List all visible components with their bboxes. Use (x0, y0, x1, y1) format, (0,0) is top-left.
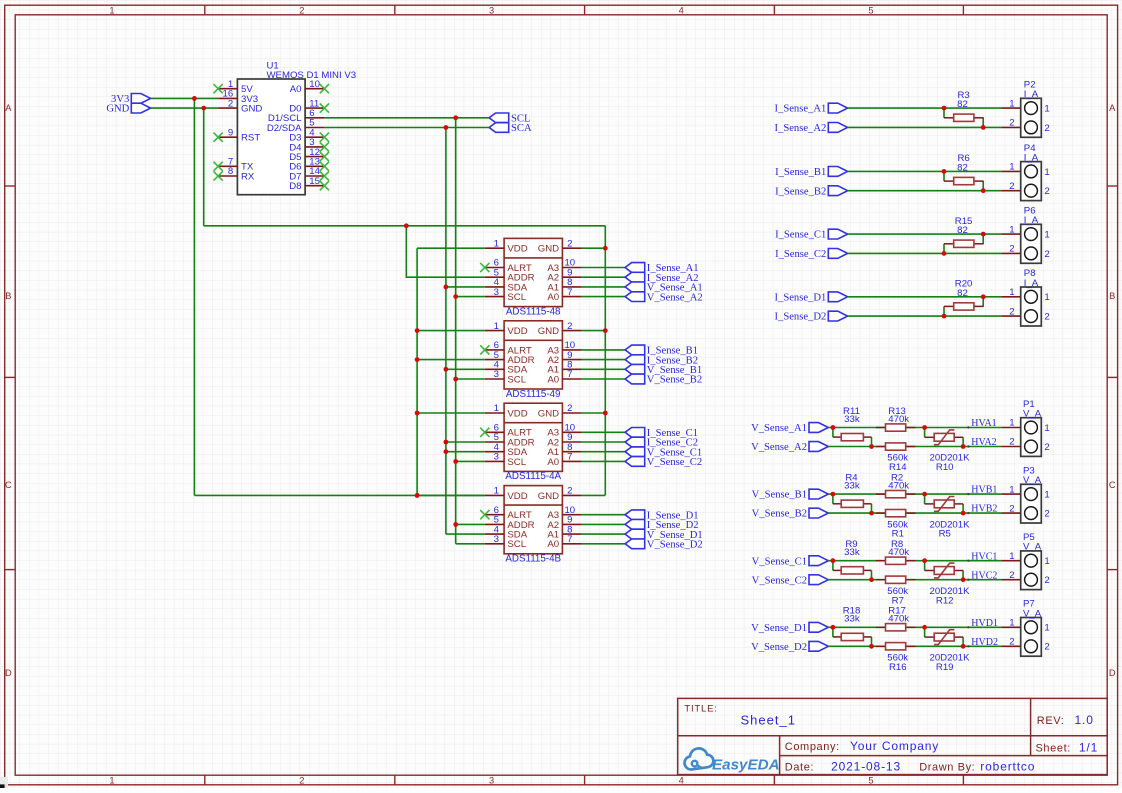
svg-text:GND: GND (538, 244, 559, 255)
svg-text:I_A: I_A (1024, 215, 1039, 226)
svg-text:82: 82 (957, 225, 968, 236)
svg-text:33k: 33k (844, 414, 860, 425)
svg-text:VDD: VDD (507, 244, 527, 255)
wire ADDR-48 branch to GND (406, 226, 485, 277)
svg-text:GND: GND (106, 104, 129, 115)
wire GND from ADS1115-4B (582, 494, 606, 496)
svg-text:RST: RST (241, 133, 260, 144)
svg-text:4: 4 (679, 775, 684, 785)
svg-text:V_Sense_B2: V_Sense_B2 (647, 375, 702, 386)
svg-text:2: 2 (1044, 642, 1049, 653)
svg-text:Sheet_1: Sheet_1 (741, 712, 796, 727)
net label HVB2 (967, 504, 997, 515)
net flag V_Sense_D2 (751, 641, 828, 653)
svg-text:3: 3 (494, 452, 499, 463)
svg-text:1: 1 (109, 5, 114, 15)
svg-text:GND: GND (538, 408, 559, 419)
svg-text:V_A: V_A (1023, 542, 1042, 553)
resistor R11 33k (833, 406, 872, 441)
junction GND ADS1115-49 (603, 328, 608, 333)
svg-text:Date:: Date: (785, 762, 814, 774)
junction R11 top (831, 425, 836, 430)
connector P1 V_A (1001, 399, 1049, 457)
wire SDA from U1 D2/SDA to flag (324, 127, 489, 129)
wire SDA stub ADS1115-48 (444, 285, 485, 290)
wire SCL stub ADS1115-48 (453, 294, 484, 299)
svg-text:V_Sense_B1: V_Sense_B1 (752, 490, 807, 501)
net flag SCL (489, 113, 530, 125)
varistor R12 20D201K (925, 561, 970, 607)
svg-text:2: 2 (1009, 570, 1014, 581)
svg-text:HVB2: HVB2 (971, 504, 997, 515)
net flag I_Sense_D1 (775, 292, 848, 304)
varistor R10 20D201K (925, 428, 970, 474)
wire GND from ADS1115-4A (582, 412, 606, 414)
wire resistor R11 drop legs (833, 428, 872, 447)
svg-text:V_Sense_D1: V_Sense_D1 (751, 623, 807, 634)
junction R5 top (922, 492, 927, 497)
junction R6 bottom (981, 188, 986, 193)
svg-text:I_Sense_D2: I_Sense_D2 (775, 312, 827, 323)
wire V_Sense_A1 row (828, 427, 1001, 429)
net flag V_Sense_C2 (752, 575, 829, 587)
wire ADS1115-4A to net flag V_Sense_C1 (582, 451, 625, 453)
svg-text:5: 5 (868, 5, 873, 15)
wire ADS1115-4A to net flag I_Sense_C1 (582, 431, 625, 433)
wire VDD to ADS1115-4B (417, 494, 485, 496)
svg-text:1: 1 (1009, 551, 1014, 562)
net flag V_Sense_D2 (625, 539, 703, 551)
svg-text:B: B (5, 291, 11, 301)
resistor R2 470k (876, 472, 916, 497)
svg-text:HVC1: HVC1 (971, 551, 997, 562)
svg-text:C: C (1109, 480, 1116, 490)
wire V_Sense_D2 row (828, 645, 1001, 647)
svg-text:ADS1115-4B: ADS1115-4B (505, 554, 561, 565)
junction R4 top (831, 492, 836, 497)
svg-text:15: 15 (309, 176, 320, 187)
svg-text:A0: A0 (547, 457, 559, 468)
svg-text:VDD: VDD (507, 326, 527, 337)
net flag I_Sense_C1 (625, 428, 698, 440)
svg-text:1: 1 (1009, 98, 1014, 109)
net flag I_Sense_D2 (625, 520, 698, 532)
svg-text:roberttco: roberttco (980, 760, 1035, 774)
junction R12 top (922, 558, 927, 563)
junction R4 bottom (869, 511, 874, 516)
svg-text:VDD: VDD (507, 408, 527, 419)
wire GND right vertical rail (604, 226, 606, 496)
wire VDD to ADS1115-49 (417, 330, 485, 332)
net flag I_Sense_A2 (775, 123, 848, 135)
net flag V_Sense_A2 (751, 442, 828, 454)
svg-text:V_Sense_C2: V_Sense_C2 (752, 575, 807, 586)
wire ADDR-4B to SCL bus (453, 522, 484, 527)
svg-text:2: 2 (299, 775, 304, 785)
svg-text:1: 1 (1044, 230, 1049, 241)
svg-text:7: 7 (567, 369, 572, 380)
junction R3 bottom (981, 125, 986, 130)
junction R9 bottom (869, 577, 874, 582)
svg-text:1: 1 (1009, 224, 1014, 235)
resistor R4 33k (833, 472, 872, 507)
junction R6 top (942, 169, 947, 174)
svg-text:C: C (5, 480, 12, 490)
wire ADDR-49 to VDD rail (415, 357, 485, 362)
svg-text:82: 82 (957, 99, 968, 110)
junction VDD ADS1115-4A (415, 411, 420, 416)
wire SDA stub ADS1115-49 (444, 367, 485, 372)
resistor R18 33k (833, 606, 872, 641)
net flag I_Sense_B2 (775, 186, 848, 198)
svg-text:V_Sense_D2: V_Sense_D2 (751, 642, 807, 653)
resistor R16 560k (876, 643, 916, 673)
varistor R19 20D201K (925, 627, 970, 673)
net flag I_Sense_B1 (775, 167, 848, 179)
svg-text:470k: 470k (888, 414, 909, 425)
svg-text:EasyEDA: EasyEDA (712, 757, 780, 774)
wire ADDR-4A to SDA bus (444, 440, 485, 445)
svg-text:D: D (1109, 668, 1116, 678)
wire GND horizontal rail (204, 225, 606, 227)
svg-text:I_Sense_C1: I_Sense_C1 (775, 230, 826, 241)
wire V_Sense_C2 row (828, 579, 1001, 581)
wire ADS1115-49 to net flag I_Sense_B2 (582, 359, 625, 361)
connector P6 I_A (1001, 206, 1049, 264)
svg-text:D: D (5, 668, 12, 678)
svg-text:R10: R10 (936, 462, 954, 473)
wire ADS1115-4A to net flag I_Sense_C2 (582, 441, 625, 443)
svg-text:1: 1 (494, 486, 499, 497)
svg-text:HVB1: HVB1 (971, 485, 997, 496)
svg-text:Company:: Company: (785, 741, 840, 753)
wire 3V3 horizontal to ADS1115-4B VDD (194, 494, 484, 496)
svg-text:10: 10 (309, 79, 320, 90)
svg-text:I_Sense_B2: I_Sense_B2 (775, 186, 826, 197)
net flag V_Sense_B1 (752, 489, 829, 501)
net flag V_Sense_B1 (625, 364, 702, 376)
wire I_Sense_B1 row (848, 170, 1002, 172)
junction VDD rail at 3V3 (415, 493, 420, 498)
svg-text:2: 2 (1044, 123, 1049, 134)
junction ADDR-48 branch (404, 223, 409, 228)
svg-text:2: 2 (1009, 181, 1014, 192)
varistor R5 20D201K (925, 494, 970, 540)
wire I_Sense_A1 row (848, 107, 1002, 109)
resistor R7 560k (876, 576, 916, 606)
net flag V_Sense_D1 (751, 622, 828, 634)
junction VDD ADS1115-4B (415, 493, 420, 498)
svg-text:A: A (1109, 103, 1116, 113)
junction GND at U1 (201, 106, 206, 111)
net flag V_Sense_C1 (752, 556, 829, 568)
svg-text:A0: A0 (547, 539, 559, 550)
svg-text:I_A: I_A (1024, 278, 1039, 289)
svg-text:2: 2 (1044, 442, 1049, 453)
svg-text:A0: A0 (547, 292, 559, 303)
net flag I_Sense_A1 (775, 103, 848, 115)
wire V_Sense_B1 row (828, 493, 1001, 495)
svg-text:1: 1 (1009, 287, 1014, 298)
net flag I_Sense_C1 (775, 229, 848, 241)
net flag V_Sense_A1 (751, 423, 828, 435)
svg-text:ADS1115-4A: ADS1115-4A (505, 471, 561, 482)
svg-text:470k: 470k (888, 614, 909, 625)
svg-text:2: 2 (1044, 186, 1049, 197)
svg-text:A0: A0 (290, 84, 302, 95)
svg-text:470k: 470k (888, 547, 909, 558)
junction R20 top (981, 294, 986, 299)
svg-text:3: 3 (494, 369, 499, 380)
junction GND ADS1115-4A (603, 411, 608, 416)
junction R10 top (922, 425, 927, 430)
svg-text:2: 2 (567, 403, 572, 414)
wire ADS1115-49 to net flag I_Sense_B1 (582, 349, 625, 351)
svg-text:2: 2 (1009, 118, 1014, 129)
junction SDA bus (444, 125, 449, 130)
svg-text:1: 1 (1009, 484, 1014, 495)
svg-text:V_Sense_A2: V_Sense_A2 (751, 442, 807, 453)
svg-text:GND: GND (538, 491, 559, 502)
resistor R1 560k (876, 510, 916, 540)
wire I_Sense_B2 row (848, 190, 1002, 192)
svg-text:HVD1: HVD1 (971, 618, 998, 629)
svg-text:V_A: V_A (1023, 475, 1042, 486)
net flag 3V3 (111, 94, 151, 106)
svg-text:Drawn By:: Drawn By: (919, 762, 975, 774)
connector P7 V_A (1001, 599, 1049, 657)
svg-text:I_Sense_A1: I_Sense_A1 (775, 104, 827, 115)
junction 3V3 at U1 (192, 96, 197, 101)
svg-text:1: 1 (1044, 292, 1049, 303)
net flag I_Sense_B2 (625, 355, 698, 367)
svg-text:SCA: SCA (511, 123, 532, 134)
wire ADS1115-48 to net flag V_Sense_A2 (582, 296, 625, 298)
net flag I_Sense_B1 (625, 345, 698, 357)
svg-text:HVA1: HVA1 (971, 418, 996, 429)
junction R12 bottom (961, 577, 966, 582)
svg-text:33k: 33k (844, 547, 860, 558)
svg-text:3: 3 (489, 775, 494, 785)
wire V_Sense_C1 row (828, 560, 1001, 562)
wire SDA bus vertical (445, 128, 447, 535)
junction VDD ADS1115-49 (415, 328, 420, 333)
svg-text:1: 1 (1009, 418, 1014, 429)
connector P8 I_A (1001, 268, 1049, 326)
wire SCL stub ADS1115-4A (453, 459, 484, 464)
svg-text:1: 1 (1044, 104, 1049, 115)
wire SDA stub ADS1115-4A (444, 449, 485, 454)
svg-text:3: 3 (494, 287, 499, 298)
svg-text:2: 2 (567, 238, 572, 249)
wire 3V3 vertical rail (193, 98, 195, 495)
svg-text:V_Sense_C1: V_Sense_C1 (752, 556, 807, 567)
wire ADS1115-49 to net flag V_Sense_B1 (582, 368, 625, 370)
svg-text:SCL: SCL (507, 374, 526, 385)
svg-text:2: 2 (567, 486, 572, 497)
connector P3 V_A (1001, 466, 1049, 524)
wire resistor R6 drop legs (944, 171, 983, 190)
wire 3V3 flag to U1 pin 16 (151, 97, 219, 99)
svg-text:1: 1 (1044, 556, 1049, 567)
op-amp-style IC ADS1115-48 (ADC) (480, 238, 582, 317)
svg-text:2: 2 (1044, 312, 1049, 323)
wire I_Sense_C1 row (848, 233, 1002, 235)
svg-text:I_Sense_D1: I_Sense_D1 (775, 292, 827, 303)
wire ADS1115-4B to net flag V_Sense_D1 (582, 533, 625, 535)
svg-text:V_A: V_A (1023, 608, 1042, 619)
net flag I_Sense_A2 (625, 272, 698, 284)
svg-text:2021-08-13: 2021-08-13 (831, 760, 901, 774)
wire GND from ADS1115-48 (582, 247, 606, 249)
svg-text:R19: R19 (936, 662, 954, 673)
svg-text:D8: D8 (289, 181, 301, 192)
net flag V_Sense_A2 (625, 292, 703, 304)
svg-text:I_Sense_B1: I_Sense_B1 (775, 167, 826, 178)
resistor R14 560k (876, 443, 916, 473)
net flag I_Sense_C2 (625, 437, 698, 449)
net label HVD1 (967, 618, 998, 629)
junction R5 bottom (961, 511, 966, 516)
net flag I_Sense_A1 (625, 263, 698, 275)
svg-text:2: 2 (1009, 437, 1014, 448)
junction SCL bus (453, 115, 458, 120)
op-amp-style IC ADS1115-4B (ADC) (480, 486, 582, 565)
wire resistor R4 drop legs (833, 494, 872, 513)
svg-text:I_A: I_A (1024, 89, 1039, 100)
svg-text:B: B (1109, 291, 1115, 301)
svg-text:1: 1 (109, 775, 114, 785)
svg-text:HVC2: HVC2 (971, 570, 997, 581)
svg-text:82: 82 (957, 162, 968, 173)
resistor R8 470k (876, 539, 916, 564)
op-amp-style IC ADS1115-49 (ADC) (480, 321, 582, 400)
svg-text:2: 2 (567, 321, 572, 332)
svg-text:R5: R5 (939, 529, 951, 540)
wire ADS1115-4B to net flag I_Sense_D2 (582, 523, 625, 525)
net label HVA2 (967, 437, 996, 448)
junction R11 bottom (869, 444, 874, 449)
wire resistor R15 drop legs (944, 234, 983, 253)
wire V_Sense_D1 row (828, 626, 1001, 628)
connector P2 I_A (1001, 80, 1049, 138)
svg-text:Sheet:: Sheet: (1036, 743, 1071, 755)
net flag V_Sense_D1 (625, 529, 703, 541)
junction GND ADS1115-48 (603, 246, 608, 251)
wire GND flag to U1 pin 2 (151, 107, 219, 109)
svg-text:VDD: VDD (507, 491, 527, 502)
wire ADS1115-4B to net flag I_Sense_D1 (582, 514, 625, 516)
svg-text:ADS1115-48: ADS1115-48 (506, 306, 561, 317)
wire SCL bus vertical (455, 118, 457, 544)
svg-text:Your Company: Your Company (850, 739, 939, 753)
svg-text:1: 1 (1009, 618, 1014, 629)
wire ADS1115-48 to net flag V_Sense_A1 (582, 286, 625, 288)
svg-text:REV:: REV: (1037, 715, 1065, 727)
wire resistor R18 drop legs (833, 627, 872, 646)
svg-text:V_Sense_D2: V_Sense_D2 (647, 540, 703, 551)
resistor R17 470k (876, 606, 916, 631)
wire I_Sense_D2 row (848, 315, 1002, 317)
net flag V_Sense_B2 (625, 374, 702, 386)
net flag GND (106, 103, 150, 115)
net flag I_Sense_D1 (625, 510, 698, 522)
wire SCL stub ADS1115-49 (453, 377, 484, 382)
wire GND vertical drop (203, 108, 205, 226)
svg-text:V_Sense_A2: V_Sense_A2 (647, 292, 703, 303)
junction R10 bottom (961, 444, 966, 449)
svg-text:2: 2 (1009, 306, 1014, 317)
svg-text:TITLE:: TITLE: (684, 704, 717, 715)
junction R9 top (831, 558, 836, 563)
svg-text:V_Sense_C2: V_Sense_C2 (647, 457, 702, 468)
net label HVB1 (967, 485, 997, 496)
svg-text:2: 2 (1009, 503, 1014, 514)
svg-text:7: 7 (567, 287, 572, 298)
wire VDD to ADS1115-48 (417, 247, 485, 249)
wire resistor R3 drop legs (944, 108, 983, 127)
wire SDA stub ADS1115-4B (446, 533, 485, 535)
svg-text:R16: R16 (889, 662, 907, 673)
junction R18 top (831, 625, 836, 630)
svg-text:2: 2 (1009, 244, 1014, 255)
svg-text:2: 2 (1044, 575, 1049, 586)
svg-text:SCL: SCL (507, 539, 526, 550)
svg-text:RX: RX (241, 171, 255, 182)
net label HVA1 (967, 418, 996, 429)
svg-text:2: 2 (1044, 509, 1049, 520)
connector P4 I_A (1001, 143, 1049, 201)
svg-text:1: 1 (1044, 167, 1049, 178)
junction R19 top (922, 625, 927, 630)
svg-text:7: 7 (567, 534, 572, 545)
wire GND from ADS1115-49 (582, 330, 606, 332)
svg-text:1/1: 1/1 (1079, 741, 1098, 755)
svg-text:1: 1 (1044, 423, 1049, 434)
wire SCL stub ADS1115-4B (456, 543, 485, 545)
svg-text:9: 9 (228, 127, 233, 138)
net flag V_Sense_A1 (625, 282, 703, 294)
svg-text:2: 2 (1009, 637, 1014, 648)
svg-text:I_Sense_C2: I_Sense_C2 (775, 249, 826, 260)
net label HVC2 (967, 570, 997, 581)
svg-text:470k: 470k (888, 481, 909, 492)
net flag V_Sense_B2 (752, 508, 829, 520)
wire resistor R9 drop legs (833, 561, 872, 580)
svg-text:4: 4 (679, 5, 684, 15)
junction R3 top (942, 106, 947, 111)
svg-text:V_Sense_B2: V_Sense_B2 (752, 509, 807, 520)
svg-text:8: 8 (228, 166, 233, 177)
connector P5 V_A (1001, 532, 1049, 590)
svg-text:1: 1 (494, 321, 499, 332)
wire V_Sense_A2 row (828, 446, 1001, 448)
wire ADS1115-48 to net flag I_Sense_A2 (582, 276, 625, 278)
wire resistor R20 drop legs (944, 297, 983, 316)
svg-text:R12: R12 (936, 595, 954, 606)
net flag I_Sense_C2 (775, 249, 848, 261)
svg-text:82: 82 (957, 288, 968, 299)
svg-text:2: 2 (1044, 249, 1049, 260)
svg-text:7: 7 (567, 452, 572, 463)
svg-text:3: 3 (489, 5, 494, 15)
svg-text:GND: GND (241, 104, 262, 115)
svg-text:V_Sense_A1: V_Sense_A1 (751, 423, 807, 434)
svg-text:3: 3 (494, 534, 499, 545)
junction R19 bottom (961, 644, 966, 649)
svg-text:A0: A0 (547, 374, 559, 385)
wire I_Sense_D1 row (848, 296, 1002, 298)
